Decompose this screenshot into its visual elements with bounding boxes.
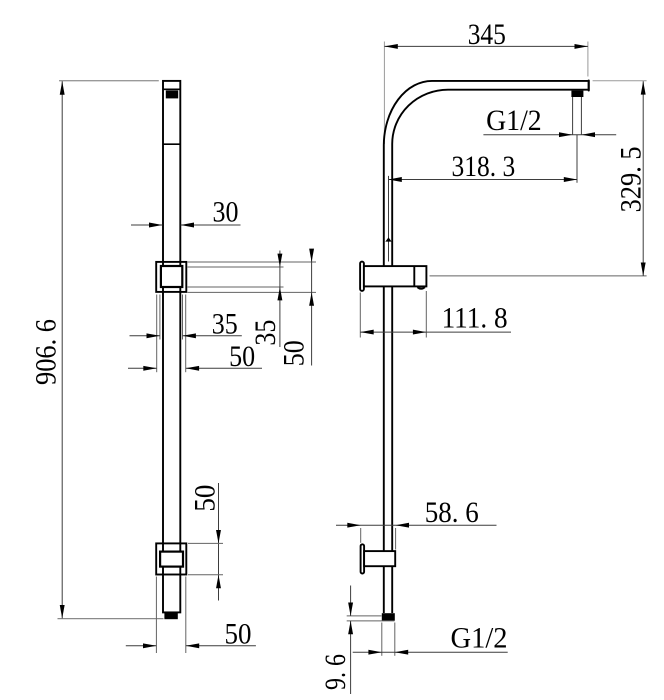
wire: 58.6 ext left [360, 528, 362, 543]
lower bracket slider block [160, 552, 183, 567]
wire: ext line below bracket inner-right [182, 295, 184, 340]
lower bracket outer housing [156, 543, 186, 574]
svg-text:50: 50 [225, 618, 252, 651]
dimension 50 horizontal [128, 367, 157, 369]
lower wall bracket body [364, 551, 395, 566]
rail joint seam [163, 143, 180, 145]
upper bracket slider block [161, 266, 182, 287]
wire: ext line below bracket inner-left [159, 295, 161, 340]
svg-text:30: 30 [213, 196, 239, 229]
dimension 9.6 [347, 615, 382, 617]
shower column pipe outer edge [384, 81, 588, 613]
svg-text:111. 8: 111. 8 [442, 302, 508, 335]
arm G1/2 black connector [571, 91, 583, 97]
rail top cap seam [163, 88, 180, 90]
column bottom black cap [382, 613, 395, 621]
upper bracket under-shadow arc [417, 287, 425, 289]
dimension 35 vertical [279, 251, 281, 348]
thread line left [572, 97, 574, 135]
wire: bracket ext line inner-top [188, 266, 284, 268]
wire: lower bracket ext bottom [188, 574, 223, 576]
upper wall bracket flange [360, 262, 364, 291]
wire: 906.6 dimension line [61, 81, 63, 618]
wire: 58.6 ext right [395, 528, 397, 550]
svg-text:50: 50 [189, 485, 222, 512]
dimension 35 horizontal [130, 335, 160, 337]
wire: bottom 50 ext right [185, 577, 187, 654]
svg-text:9. 6: 9. 6 [319, 654, 352, 690]
dimension 50 bottom [126, 645, 157, 647]
lower wall bracket flange [361, 544, 365, 573]
wire: rail centerline stub with tick [388, 176, 390, 262]
wire: ext line below bracket far-left [156, 295, 158, 373]
svg-text:G1/2: G1/2 [486, 104, 542, 137]
wire: bottom G1/2 ext right [394, 623, 396, 656]
dimension 329.5 [593, 80, 647, 82]
dimension 30 left segment [131, 224, 162, 226]
rail top black plug [166, 90, 178, 98]
shower column pipe inner edge [392, 90, 588, 613]
wire: 906.6 bottom extension line [58, 618, 164, 620]
wire: bottom G1/2 ext left [381, 623, 383, 656]
svg-text:50: 50 [277, 340, 310, 366]
dimension 111.8 [359, 293, 361, 338]
dimension 50 lower vertical [218, 483, 220, 601]
wire: bracket ext line outer-top [188, 261, 317, 263]
svg-text:318. 3: 318. 3 [452, 150, 516, 183]
thread line right [580, 97, 582, 135]
rail bottom black cap [164, 613, 177, 620]
dimension 345 [383, 42, 385, 145]
svg-text:50: 50 [229, 340, 255, 373]
svg-text:906. 6: 906. 6 [30, 319, 63, 385]
arm end cap [588, 81, 590, 91]
wire: thread centerline down to 318.3 [576, 135, 578, 183]
dimension G1/2 bottom [353, 651, 508, 653]
svg-text:35: 35 [212, 307, 238, 340]
rail tube body [163, 81, 180, 613]
svg-text:G1/2: G1/2 [451, 622, 508, 655]
wire: bracket ext line inner-bottom [188, 286, 284, 288]
upper bracket outer housing [156, 262, 186, 292]
wire: lower bracket ext top [188, 542, 223, 544]
svg-text:58. 6: 58. 6 [425, 496, 479, 529]
dimension 318.3 [388, 179, 577, 181]
wire: bracket ext line outer-bottom [188, 291, 317, 293]
dimension G1/2 top [483, 134, 616, 136]
svg-text:345: 345 [468, 18, 506, 51]
svg-text:329. 5: 329. 5 [615, 146, 648, 212]
upper bracket divider [413, 266, 415, 286]
wire: 906.6 top extension line [59, 80, 159, 82]
upper wall bracket body [364, 266, 427, 286]
dimension 50 vertical [311, 249, 313, 366]
dimension 30 right segment [181, 224, 241, 226]
wire: ext line below bracket far-right [185, 295, 187, 373]
wire: bottom 50 ext left [155, 577, 157, 654]
dimension 58.6 [336, 524, 497, 526]
